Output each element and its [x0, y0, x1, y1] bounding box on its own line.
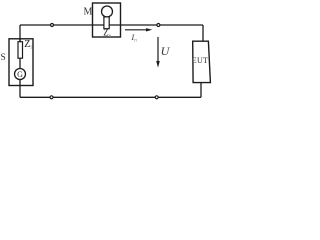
svg-text:G: G: [17, 70, 23, 79]
wire bottom rail: [20, 96, 201, 98]
node bottom-right: [155, 96, 158, 99]
wire top rail: [20, 24, 203, 26]
arrow In (current direction): [125, 28, 152, 31]
node top-right: [157, 24, 160, 27]
node bottom-left: [50, 96, 53, 99]
svg-text:U: U: [161, 44, 171, 58]
box S (signal source enclosure): [9, 39, 33, 86]
wire generator to bottom rail: [19, 80, 21, 98]
wire EUT bottom to bottom rail: [200, 83, 202, 98]
arrow U (voltage across EUT): [156, 37, 160, 68]
svg-text:EUT: EUT: [192, 56, 208, 65]
svg-text:S: S: [1, 53, 6, 63]
box M (measuring equipment enclosure): [93, 3, 121, 37]
wire inside S box: rail to Zs: [19, 39, 21, 42]
generator G: [15, 69, 26, 80]
svg-text:M: M: [84, 7, 93, 18]
impedance Ze: [104, 17, 109, 29]
wire left drop from top rail into source box: [19, 25, 21, 42]
box EUT (equipment under test): [193, 41, 211, 82]
impedance Zs: [18, 42, 23, 59]
node top-left: [51, 24, 54, 27]
meter circle in M: [102, 6, 113, 17]
wire Zs to generator G: [19, 58, 21, 68]
wire right drop from top rail to EUT: [202, 25, 204, 41]
